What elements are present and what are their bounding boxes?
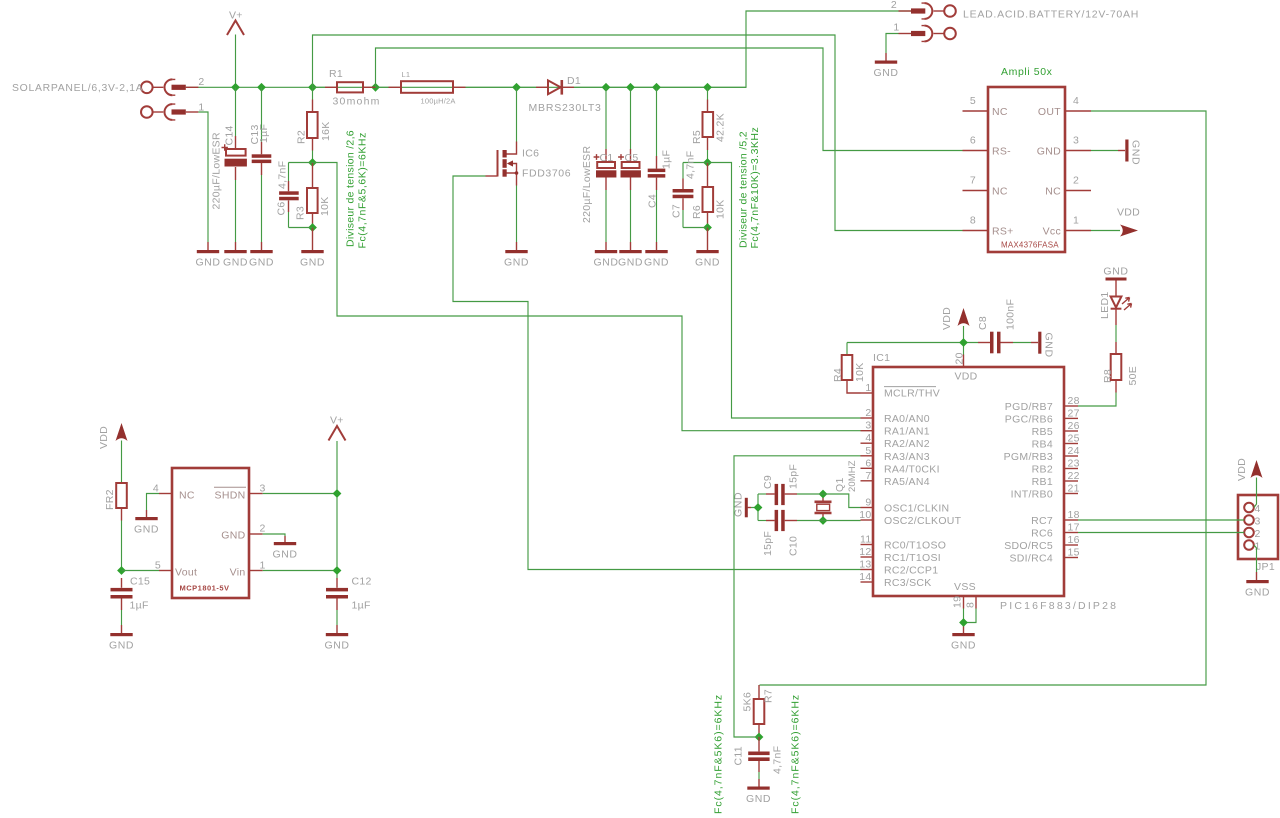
svg-text:1: 1 (893, 22, 899, 34)
svg-text:220µF/LowESR: 220µF/LowESR (581, 146, 593, 223)
svg-text:MCLR/THV: MCLR/THV (884, 388, 940, 400)
ground above LED1 (1103, 266, 1128, 281)
svg-text:Fc(4,7nF&5K6)=6KHz: Fc(4,7nF&5K6)=6KHz (713, 694, 725, 814)
label LED1 (1099, 292, 1111, 319)
svg-text:SOLARPANEL/6,3V-2,1A: SOLARPANEL/6,3V-2,1A (12, 83, 143, 94)
label R7 value 5K6 (742, 692, 754, 712)
svg-text:2: 2 (891, 0, 897, 11)
ground crystal caps (rotated) (733, 492, 748, 517)
junction R2/R3 divider node (308, 158, 317, 167)
svg-text:16: 16 (1068, 534, 1080, 546)
label C8 (977, 316, 989, 330)
svg-text:4: 4 (1073, 95, 1079, 107)
wire net OSC1 (823, 494, 861, 508)
connector X2 pin 2 (battery) (891, 0, 956, 19)
svg-text:V+: V+ (229, 10, 243, 22)
svg-text:MCP1801-5V: MCP1801-5V (180, 584, 230, 593)
wire net divider /5,2 to PIC RA0 (708, 163, 861, 419)
svg-text:4,7nF: 4,7nF (772, 746, 784, 774)
connector X1 pin 2 (solar panel) (141, 76, 205, 95)
label LEAD.ACID.BATTERY/12V-70AH (963, 9, 1139, 21)
svg-text:IC1: IC1 (873, 352, 890, 364)
net label Fc(4,7nF&5K6)=6KHz right (790, 694, 802, 814)
junction bus at C4 (652, 83, 661, 92)
svg-text:VDD: VDD (98, 426, 110, 449)
svg-text:Fc(4,7nF&5,6K)=6KHz: Fc(4,7nF&5,6K)=6KHz (357, 132, 369, 248)
svg-text:RA2/AN2: RA2/AN2 (884, 438, 930, 450)
pin 3 SHDN stub (214, 483, 266, 502)
label MCP1801-5V (180, 584, 230, 593)
capacitor C11 4,7nF (748, 737, 769, 787)
svg-text:C14: C14 (224, 125, 236, 145)
svg-text:5: 5 (970, 95, 976, 107)
JP1 pin 2 circle (1244, 528, 1260, 540)
svg-text:100nF: 100nF (1005, 299, 1017, 330)
svg-text:RA0/AN0: RA0/AN0 (884, 413, 930, 425)
svg-text:2: 2 (198, 76, 204, 88)
svg-text:14: 14 (859, 571, 871, 583)
svg-text:3: 3 (1073, 135, 1079, 147)
wire amp pin3 to ground (1091, 150, 1125, 152)
label SOLARPANEL/6,3V-2,1A (12, 83, 143, 94)
pin 13 RC2 (859, 559, 938, 577)
svg-text:INT/RB0: INT/RB0 (1011, 489, 1053, 501)
junction R3 bottom / C6 (308, 223, 317, 232)
svg-text:3: 3 (260, 483, 266, 495)
svg-text:VDD: VDD (954, 371, 977, 383)
pin 7 NC stub (963, 175, 989, 191)
svg-text:RC7: RC7 (1031, 515, 1053, 527)
wire pin 4 NC to ground (147, 494, 160, 518)
net label Fc(4,7nF&5K6)=6KHz left (713, 694, 725, 814)
svg-text:IC6: IC6 (522, 148, 539, 160)
label C7 value 4,7nF (685, 151, 697, 179)
label R2 value 16K (320, 121, 332, 141)
pin 28 RB7 (1005, 395, 1080, 413)
connector X2 pin 1 (battery) (893, 22, 955, 42)
wire pin 2 to ground (263, 534, 285, 542)
label C6 (276, 201, 288, 215)
label C4 value 1uF (661, 150, 673, 169)
label Q1 value 20MHZ (847, 460, 858, 492)
svg-text:5: 5 (865, 445, 871, 457)
junction R7/C11 node (755, 733, 764, 742)
pin 6 RS- stub (963, 135, 989, 151)
capacitor C14 220uF polarized (222, 87, 247, 250)
svg-text:8: 8 (965, 602, 977, 608)
svg-text:11: 11 (860, 534, 872, 546)
wire net gate RC2/CCP1 to mosfet gate (453, 176, 861, 570)
junction bus at IC6 drain (512, 83, 521, 92)
wire amp pin1 Vcc to VDD (1091, 230, 1120, 232)
pin 4 RA2 (861, 432, 930, 450)
label IC6 value FDD3706 (522, 168, 571, 180)
svg-text:2: 2 (1255, 528, 1261, 540)
svg-text:MBRS230LT3: MBRS230LT3 (529, 102, 602, 114)
svg-text:4,7nF: 4,7nF (277, 161, 289, 189)
svg-text:C11: C11 (733, 746, 745, 765)
capacitor C15 1uF (111, 578, 133, 633)
pin 1 Vin stub (230, 560, 266, 579)
label R4 value 10K (854, 362, 866, 382)
svg-text:C12: C12 (352, 576, 372, 588)
pin 2 GND stub (221, 523, 265, 542)
wire net RB7 to R8 (1078, 393, 1116, 407)
svg-text:4,7nF: 4,7nF (685, 151, 697, 179)
label R8 (1102, 369, 1114, 383)
pin 12 RC1 (859, 546, 941, 564)
svg-text:24: 24 (1068, 445, 1080, 457)
label 220uF/LowESR (211, 132, 223, 209)
svg-text:Fc(4,7nF&10K)=3.3KHz: Fc(4,7nF&10K)=3.3KHz (749, 127, 761, 249)
svg-text:Diviseur de tension /2,6: Diviseur de tension /2,6 (345, 130, 357, 247)
svg-text:C7: C7 (671, 204, 683, 218)
capacitor C9 15pF (758, 484, 823, 505)
pin 2 NC stub (1065, 175, 1091, 191)
label R1 (329, 68, 343, 80)
svg-text:7: 7 (865, 470, 871, 482)
amp pin names (992, 106, 1061, 238)
op-amp U1 MAX4376FASA box (988, 87, 1065, 252)
svg-text:10K: 10K (854, 362, 866, 382)
svg-text:RB5: RB5 (1032, 426, 1053, 438)
svg-text:1µF: 1µF (258, 124, 270, 143)
JP1 pin 3 circle (1244, 515, 1260, 527)
svg-text:15pF: 15pF (788, 464, 800, 489)
svg-text:13: 13 (859, 559, 871, 571)
wire C7 bottom to R6 bottom (683, 227, 708, 229)
net label Diviseur de tension /2,6 (345, 130, 357, 247)
svg-text:5: 5 (155, 560, 161, 572)
ground R6 (695, 250, 720, 268)
pin 7 RA5 (861, 470, 930, 488)
svg-text:OUT: OUT (1038, 106, 1061, 118)
pin 25 RB4 (1032, 433, 1080, 451)
inductor L1 100uH (376, 81, 517, 93)
junction bus at R2 (308, 83, 317, 92)
svg-text:16K: 16K (320, 121, 332, 141)
label C6 value 4,7nF (277, 161, 289, 189)
label C10 (788, 536, 800, 556)
svg-text:25: 25 (1068, 433, 1080, 445)
pin 27 RB6 (1005, 407, 1080, 425)
label R6 value 10K (715, 199, 727, 219)
crystal Q1 20MHz (815, 494, 832, 521)
svg-text:R8: R8 (1102, 369, 1114, 383)
capacitor C12 1uF (326, 588, 348, 633)
svg-text:OSC1/CLKIN: OSC1/CLKIN (884, 503, 949, 515)
transistor IC6 FDD3706 mosfet (498, 87, 519, 250)
svg-text:NC: NC (992, 106, 1008, 118)
svg-text:15: 15 (1068, 547, 1080, 559)
svg-text:26: 26 (1068, 420, 1080, 432)
label R5 value 42.2K (715, 113, 727, 142)
label C8 value 100nF (1005, 299, 1017, 330)
svg-text:C15: C15 (130, 576, 150, 588)
resistor R4 10K (842, 343, 861, 394)
pin 24 RB3 (1004, 445, 1080, 463)
svg-text:15pF: 15pF (762, 531, 774, 556)
svg-text:28: 28 (1068, 395, 1080, 407)
label PIC16F883/DIP28 (1000, 600, 1118, 612)
resistor R2 16K (307, 87, 318, 162)
wire C9/C10 common to ground (748, 494, 758, 521)
svg-text:Fc(4,7nF&5K6)=6KHz: Fc(4,7nF&5K6)=6KHz (790, 694, 802, 814)
wire VSS pins to ground (964, 609, 977, 634)
capacitor C13 1uF (252, 87, 272, 250)
pin 11 RC0 (860, 534, 946, 552)
pin 4 OUT stub (1065, 95, 1091, 111)
svg-text:RS+: RS+ (992, 226, 1014, 238)
svg-text:42.2K: 42.2K (715, 113, 727, 142)
label R5 (691, 130, 703, 144)
svg-text:4: 4 (153, 483, 159, 495)
capacitor C7 4.7nF (673, 163, 694, 228)
svg-text:1µF: 1µF (661, 150, 673, 169)
wire C7 top to divider node (683, 162, 708, 164)
ground JP1 (1245, 580, 1270, 598)
svg-text:LEAD.ACID.BATTERY/12V-70AH: LEAD.ACID.BATTERY/12V-70AH (963, 9, 1139, 21)
ground C5 (618, 250, 643, 268)
pin 19 VSS stub (952, 596, 964, 609)
pin 5 NC stub (963, 95, 989, 111)
regulator U3 MCP1801 box (172, 468, 249, 598)
wire net RA3 filter to PIC (734, 456, 861, 737)
wire net RC6 to JP1 pin2 (1078, 532, 1244, 534)
svg-text:SDI/RC4: SDI/RC4 (1009, 553, 1053, 565)
svg-text:C8: C8 (977, 316, 989, 330)
pin 15 RC4 (1009, 547, 1079, 565)
svg-text:RC1/T1OSI: RC1/T1OSI (884, 552, 941, 564)
svg-text:Diviseur de tension /5,2: Diviseur de tension /5,2 (738, 131, 750, 248)
junction V+ at Vin/C12 (333, 566, 342, 575)
svg-text:3: 3 (1255, 516, 1261, 528)
capacitor C1 220uF polarized (594, 87, 617, 250)
capacitor C6 4.7nF (279, 163, 299, 228)
label C13 (249, 124, 261, 144)
svg-text:V+: V+ (330, 415, 344, 427)
pin 20 VDD stub (954, 352, 978, 382)
label IC6 (522, 148, 539, 160)
svg-text:GND: GND (1103, 266, 1128, 278)
junction C9/C10 ground node (754, 503, 763, 512)
svg-text:C6: C6 (276, 201, 288, 215)
svg-text:50E: 50E (1127, 366, 1139, 386)
svg-text:GND: GND (221, 530, 245, 542)
JP1 pin 1 circle (1244, 540, 1260, 552)
svg-text:Vcc: Vcc (1043, 226, 1061, 238)
LED1 (1111, 281, 1132, 326)
pin 17 RC6 (1031, 522, 1080, 540)
junction bus at R5 (703, 83, 712, 92)
ground R3 (300, 250, 325, 268)
svg-text:Vout: Vout (175, 567, 197, 579)
wire net RC7 to JP1 pin3 (1078, 519, 1244, 521)
svg-text:1µF: 1µF (352, 600, 371, 612)
svg-text:12: 12 (859, 546, 871, 558)
capacitor C4 1uF (648, 87, 666, 250)
svg-text:R2: R2 (296, 130, 308, 144)
wire C6 bottom to R3 bottom (289, 227, 313, 229)
label C9 value 15pF (788, 464, 800, 489)
wire net RS- from bus right of R1 to amplifier (376, 48, 963, 151)
connector JP1 box (1238, 495, 1278, 559)
pin 1 Vcc stub (1065, 215, 1091, 231)
svg-text:6: 6 (970, 135, 976, 147)
svg-text:MAX4376FASA: MAX4376FASA (1001, 241, 1059, 250)
junction crystal top (819, 490, 828, 499)
svg-text:RS-: RS- (992, 146, 1011, 158)
ground C13 (249, 250, 274, 268)
svg-text:8: 8 (970, 215, 976, 227)
label C11 (733, 746, 745, 765)
connector X1 pin 1 (solar panel) (141, 102, 205, 120)
ground C15 (109, 633, 134, 651)
wire JP1 pin1 to ground (1254, 545, 1257, 580)
junction bus at C14 (231, 83, 240, 92)
ground C11 (746, 787, 771, 805)
V+ power symbol top-left (227, 10, 244, 36)
pin 8 VSS stub (965, 596, 977, 609)
resistor R7 5K6 (754, 685, 765, 737)
junction bus at R1 right (371, 83, 380, 92)
svg-text:RC2/CCP1: RC2/CCP1 (884, 565, 938, 577)
resistor R6 10K (703, 163, 714, 228)
label FR2 (104, 489, 116, 510)
svg-text:GND: GND (1043, 333, 1055, 358)
svg-text:2: 2 (260, 523, 266, 535)
label C10 value 15pF (762, 531, 774, 556)
junction bus at C1 (602, 83, 611, 92)
VDD symbol above JP1 (1236, 458, 1263, 481)
svg-text:27: 27 (1068, 407, 1080, 419)
label C12 (352, 576, 372, 588)
ground MCP pin4 (134, 517, 159, 535)
ground solar pin1 (195, 250, 220, 268)
svg-text:SHDN: SHDN (215, 490, 246, 502)
svg-text:C1: C1 (600, 152, 614, 164)
label C4 (647, 194, 659, 208)
VDD symbol above C8 (941, 307, 970, 330)
wire R6 bottom to ground (707, 228, 709, 251)
label R6 (691, 205, 703, 219)
svg-text:23: 23 (1068, 458, 1080, 470)
svg-text:L1: L1 (402, 70, 411, 79)
label IC1 (873, 352, 890, 364)
svg-text:RC3/SCK: RC3/SCK (884, 577, 932, 589)
svg-text:17: 17 (1068, 522, 1080, 534)
label R3 value 10K (319, 196, 331, 216)
label R1 value 30mohm (333, 96, 381, 108)
pin 18 RC7 (1031, 509, 1080, 527)
svg-text:RA3/AN3: RA3/AN3 (884, 451, 930, 463)
label R7 (763, 689, 775, 703)
svg-text:RC0/T1OSO: RC0/T1OSO (884, 540, 946, 552)
resistor FR2 (116, 441, 127, 571)
label C12 value 1uF (352, 600, 371, 612)
svg-text:R1: R1 (329, 68, 343, 80)
pin 10 OSC2 (859, 509, 961, 527)
svg-text:GND: GND (1130, 140, 1142, 165)
net label Diviseur de tension /5,2 (738, 131, 750, 248)
wire net VDD rail to pin 20 and C8 (847, 326, 978, 355)
junction bus at C13 (257, 83, 266, 92)
op-amp U2 PIC16F883 box IC1 (873, 367, 1064, 596)
svg-text:RB2: RB2 (1032, 464, 1053, 476)
label C1 value 220uF/LowESR (581, 146, 593, 223)
resistor R3 10K (307, 163, 318, 228)
svg-text:10K: 10K (319, 196, 331, 216)
svg-text:R5: R5 (691, 130, 703, 144)
ground battery pin1 (873, 61, 898, 79)
svg-text:9: 9 (865, 497, 871, 509)
label D1 (567, 75, 581, 87)
wire Vin to V+ rail (263, 570, 337, 572)
svg-text:FR2: FR2 (104, 489, 116, 510)
svg-text:3: 3 (865, 420, 871, 432)
svg-text:RA5/AN4: RA5/AN4 (884, 476, 930, 488)
svg-text:NC: NC (992, 186, 1008, 198)
ground MCP pin2 (272, 542, 297, 560)
svg-text:20MHZ: 20MHZ (847, 460, 858, 492)
svg-text:1µF: 1µF (130, 600, 149, 612)
svg-text:Vin: Vin (230, 567, 246, 579)
net label Fc(4,7nF&5,6K)=6KHz (357, 132, 369, 248)
pin 4 NC stub (153, 483, 195, 502)
wire net V+ stem to V+ symbol (235, 35, 237, 88)
svg-text:PGC/RB6: PGC/RB6 (1005, 413, 1053, 425)
label R3 (295, 206, 307, 220)
svg-text:RB1: RB1 (1032, 476, 1053, 488)
junction Vout/C15 node (117, 566, 126, 575)
pin 3 RA1 (861, 420, 930, 438)
svg-text:VDD: VDD (941, 307, 953, 330)
wire solar pin1 to ground (198, 112, 208, 250)
svg-text:VDD: VDD (1117, 207, 1140, 219)
pin 22 RB1 (1032, 470, 1080, 488)
label C1 (600, 152, 614, 164)
svg-text:R7: R7 (763, 689, 775, 703)
svg-text:1: 1 (1073, 215, 1079, 227)
junction bus at C5 (626, 83, 635, 92)
ground C14 (223, 250, 248, 268)
label C15 (130, 576, 150, 588)
label C5 (625, 152, 639, 164)
svg-text:4: 4 (865, 432, 871, 444)
wire Vout node to pin 5 (122, 570, 160, 572)
junction R5/R6 divider node (703, 158, 712, 167)
wire VDD to JP1 pin4 (1254, 478, 1257, 508)
label D1 value MBRS230LT3 (529, 102, 602, 114)
svg-text:Q1: Q1 (834, 477, 846, 492)
capacitor C8 100nF (978, 332, 1038, 354)
svg-text:RA4/T0CKI: RA4/T0CKI (884, 463, 940, 475)
resistor R5 42.2K (703, 87, 714, 162)
svg-text:D1: D1 (567, 75, 581, 87)
svg-text:20: 20 (954, 352, 966, 364)
label C9 (762, 475, 774, 489)
VDD symbol above FR2 (98, 423, 128, 449)
svg-text:30mohm: 30mohm (333, 96, 381, 108)
svg-text:5K6: 5K6 (742, 692, 754, 712)
pin 5 RA3 (861, 445, 930, 463)
wire C6 top to divider node (289, 162, 313, 164)
svg-text:RB4: RB4 (1032, 439, 1053, 451)
pin 14 RC3 (859, 571, 931, 589)
svg-text:R4: R4 (832, 368, 844, 382)
pin 1 MCLR stub (861, 382, 941, 400)
ground PIC VSS (951, 633, 976, 651)
